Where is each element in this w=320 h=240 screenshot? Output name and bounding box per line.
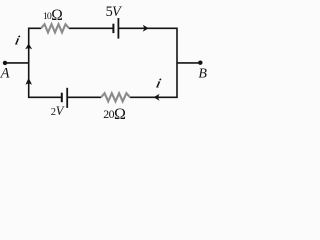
node B dot <box>198 61 202 65</box>
resistor R2 20ohm <box>101 93 130 101</box>
svg-text:Ω: Ω <box>114 106 126 123</box>
resistor R1 10ohm <box>41 24 69 32</box>
svg-text:i: i <box>14 33 22 48</box>
svg-text:V: V <box>56 104 65 118</box>
svg-text:Ω: Ω <box>51 7 63 24</box>
wire node B stub <box>177 62 200 64</box>
battery B2 2V: short negative plate <box>61 93 63 103</box>
current arrow up (left wire, upper segment) <box>25 43 32 49</box>
battery B2 2V: tall positive plate <box>66 88 68 108</box>
current arrow up (left wire, lower segment) <box>25 78 32 85</box>
current arrow right (top wire) <box>143 25 149 32</box>
battery B1 5V: short negative plate <box>112 24 114 33</box>
wire node A stub <box>5 62 29 64</box>
wire left loop: top-left stub, left vertical, bottom-left run <box>29 28 62 97</box>
svg-text:V: V <box>112 4 123 20</box>
battery B1 5V: tall positive plate <box>117 18 119 39</box>
wire top-right, right vertical, bottom-right run <box>118 28 177 97</box>
label i (current, lower right) <box>155 75 163 90</box>
wire bottom middle (between 2V battery and R2) <box>67 96 101 98</box>
svg-text:B: B <box>198 67 207 82</box>
wire top middle (between R1 and 5V battery) <box>69 27 113 29</box>
node A dot <box>3 61 7 65</box>
current arrow left (bottom wire) <box>154 94 160 101</box>
svg-text:A: A <box>0 66 10 82</box>
svg-text:i: i <box>155 75 163 90</box>
label i (current, upper left) <box>14 33 22 48</box>
